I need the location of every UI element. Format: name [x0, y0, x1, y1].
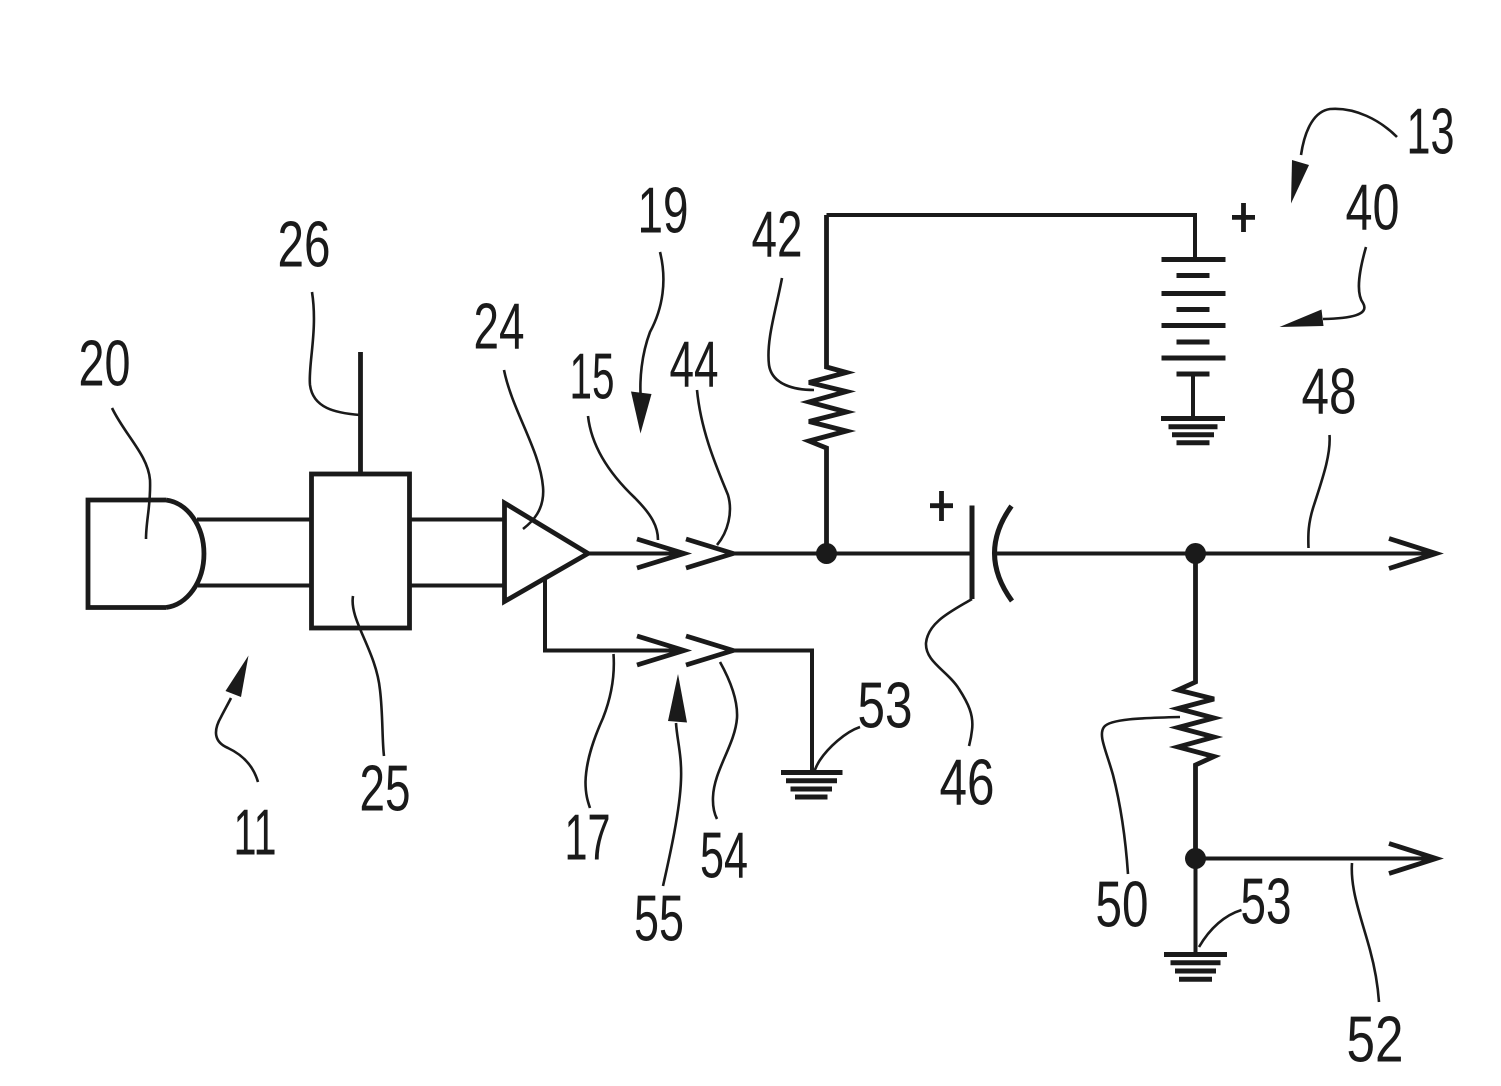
main signal line	[588, 552, 684, 556]
leader 15	[588, 416, 658, 540]
leader 54	[713, 662, 737, 819]
svg-text:13: 13	[1407, 96, 1455, 168]
svg-text:50: 50	[1096, 869, 1149, 941]
svg-text:17: 17	[565, 802, 611, 874]
microphone 20	[88, 500, 204, 608]
resistor 42	[809, 215, 847, 554]
supply wire top	[827, 215, 1196, 260]
wire lower box-amp	[410, 584, 506, 588]
leader 46	[926, 599, 972, 746]
svg-text:26: 26	[278, 209, 331, 281]
svg-text:40: 40	[1346, 172, 1400, 244]
leader 44	[697, 390, 730, 545]
wire upper box-amp	[410, 518, 506, 522]
svg-text:42: 42	[752, 199, 803, 271]
signal arrow 54 lower-1	[637, 636, 684, 665]
lower branch wire right	[733, 651, 812, 773]
amplifier 24	[505, 503, 589, 602]
leader 17	[586, 654, 614, 808]
ground 53 right stem	[1194, 859, 1198, 955]
leader 20	[112, 408, 150, 539]
node junction 2	[1185, 848, 1206, 869]
main line output	[995, 552, 1432, 556]
arrow 40	[1323, 247, 1366, 319]
svg-text:48: 48	[1302, 356, 1357, 428]
svg-text:46: 46	[940, 747, 995, 819]
leader 53 right	[1199, 910, 1242, 947]
ground battery	[1161, 419, 1225, 443]
preamp box 25	[312, 474, 410, 628]
leader 26	[310, 292, 360, 415]
leader 48	[1308, 435, 1329, 548]
lower branch wire	[545, 578, 684, 651]
ground 53 right	[1164, 955, 1227, 980]
signal arrow 54 lower-2	[686, 636, 733, 665]
svg-text:44: 44	[670, 329, 719, 401]
svg-text:54: 54	[700, 820, 748, 892]
svg-text:24: 24	[474, 291, 525, 363]
leader 42	[768, 278, 814, 390]
svg-text:53: 53	[858, 670, 913, 742]
svg-text:53: 53	[1241, 866, 1292, 938]
arrow 13	[1301, 109, 1397, 155]
ground 53 left	[781, 773, 843, 798]
signal arrow 15	[637, 539, 684, 568]
capacitor 46	[970, 506, 975, 600]
leader 25	[353, 596, 384, 756]
antenna line 26	[358, 352, 363, 474]
output arrow 48	[1389, 539, 1436, 569]
svg-text:55: 55	[634, 883, 684, 955]
leader 52	[1352, 863, 1379, 1002]
plus battery	[1232, 203, 1255, 232]
signal arrow 44	[686, 539, 733, 568]
node 50	[1185, 543, 1206, 564]
battery stem	[1191, 374, 1195, 419]
svg-text:19: 19	[638, 175, 689, 247]
leader 53 left	[814, 727, 860, 772]
leader 24	[504, 370, 543, 529]
svg-text:15: 15	[570, 341, 615, 413]
wire upper mic-box	[197, 518, 311, 522]
svg-text:11: 11	[234, 797, 277, 869]
svg-text:52: 52	[1347, 1004, 1404, 1076]
main line to capacitor	[733, 552, 970, 556]
wire lower mic-box	[198, 584, 311, 588]
leader 50	[1102, 717, 1180, 874]
arrow 55	[663, 723, 681, 886]
svg-text:20: 20	[79, 328, 131, 400]
svg-text:25: 25	[360, 753, 411, 825]
junction node	[816, 543, 837, 564]
arrow 19	[640, 252, 663, 393]
plus capacitor	[930, 491, 953, 521]
arrow 11	[216, 698, 258, 782]
battery 40	[1162, 260, 1226, 375]
output line 52	[1196, 857, 1433, 861]
resistor 50	[1178, 554, 1214, 859]
